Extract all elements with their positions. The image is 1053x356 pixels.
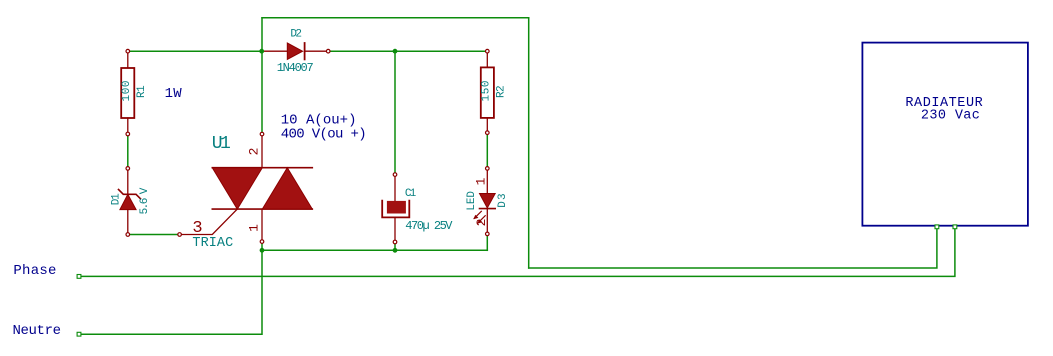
junction node C1-bottom	[393, 248, 398, 253]
wire bottom rail	[262, 249, 487, 251]
wire neutre line	[79, 250, 262, 334]
svg-text:R2: R2	[496, 85, 508, 98]
phase wire end square	[77, 275, 81, 279]
svg-text:1: 1	[474, 177, 489, 185]
junction node C1-top	[393, 49, 398, 54]
wire node A to D2 anode	[128, 50, 262, 52]
svg-text:R1: R1	[136, 85, 148, 98]
wire node A to triac A2	[261, 51, 263, 134]
triac U1	[178, 132, 312, 243]
wire top rail	[262, 17, 529, 19]
svg-text:1W: 1W	[165, 86, 183, 102]
neutre wire end square	[77, 332, 81, 336]
radiateur box	[862, 43, 1028, 226]
svg-text:1N4007: 1N4007	[277, 61, 314, 75]
wire right vertical	[528, 18, 530, 268]
svg-text:C1: C1	[405, 188, 417, 200]
svg-text:5.6 V: 5.6 V	[139, 187, 151, 214]
wire C1 bottom branch	[394, 242, 396, 250]
LED D3	[473, 167, 495, 236]
svg-text:LED: LED	[466, 191, 478, 211]
wire top-left vertical to node A	[261, 18, 263, 51]
svg-text:1: 1	[247, 224, 262, 232]
wire triac A1 to bottom rail	[261, 242, 263, 251]
wire phase line	[79, 227, 955, 277]
svg-text:Neutre: Neutre	[13, 323, 62, 339]
capacitor C1	[382, 173, 409, 244]
wire LED cathode to bottom rail	[486, 234, 488, 250]
radiateur terminal right	[953, 225, 957, 229]
wire D1 anode to triac gate	[128, 234, 180, 236]
svg-text:470µ 25V: 470µ 25V	[405, 219, 453, 233]
svg-text:2: 2	[474, 219, 489, 227]
resistor R1	[121, 49, 134, 135]
svg-text:D3: D3	[497, 193, 509, 207]
svg-text:Phase: Phase	[13, 263, 56, 279]
diode D2	[262, 43, 330, 59]
zener diode D1	[119, 167, 141, 237]
radiateur terminal left	[935, 225, 939, 229]
svg-text:2: 2	[247, 148, 262, 156]
svg-text:D2: D2	[290, 29, 302, 41]
svg-text:D1: D1	[110, 193, 122, 205]
svg-text:U1: U1	[212, 134, 231, 154]
junction node triac-A1	[260, 248, 265, 253]
wire C1 top branch	[394, 51, 396, 174]
svg-text:400 V(ou +): 400 V(ou +)	[281, 127, 367, 143]
wire R2 bottom to LED anode	[486, 133, 488, 169]
wire R1 bottom to D1 cathode	[127, 134, 129, 168]
wire D2 cathode to R2 top	[328, 50, 487, 52]
svg-text:TRIAC: TRIAC	[192, 236, 233, 251]
svg-text:150: 150	[480, 81, 492, 102]
junction node A diode-anode	[259, 49, 264, 54]
svg-text:100: 100	[121, 81, 133, 102]
resistor R2	[481, 49, 494, 134]
svg-text:230 Vac: 230 Vac	[921, 109, 980, 124]
wire radiateur left lead	[529, 227, 937, 268]
